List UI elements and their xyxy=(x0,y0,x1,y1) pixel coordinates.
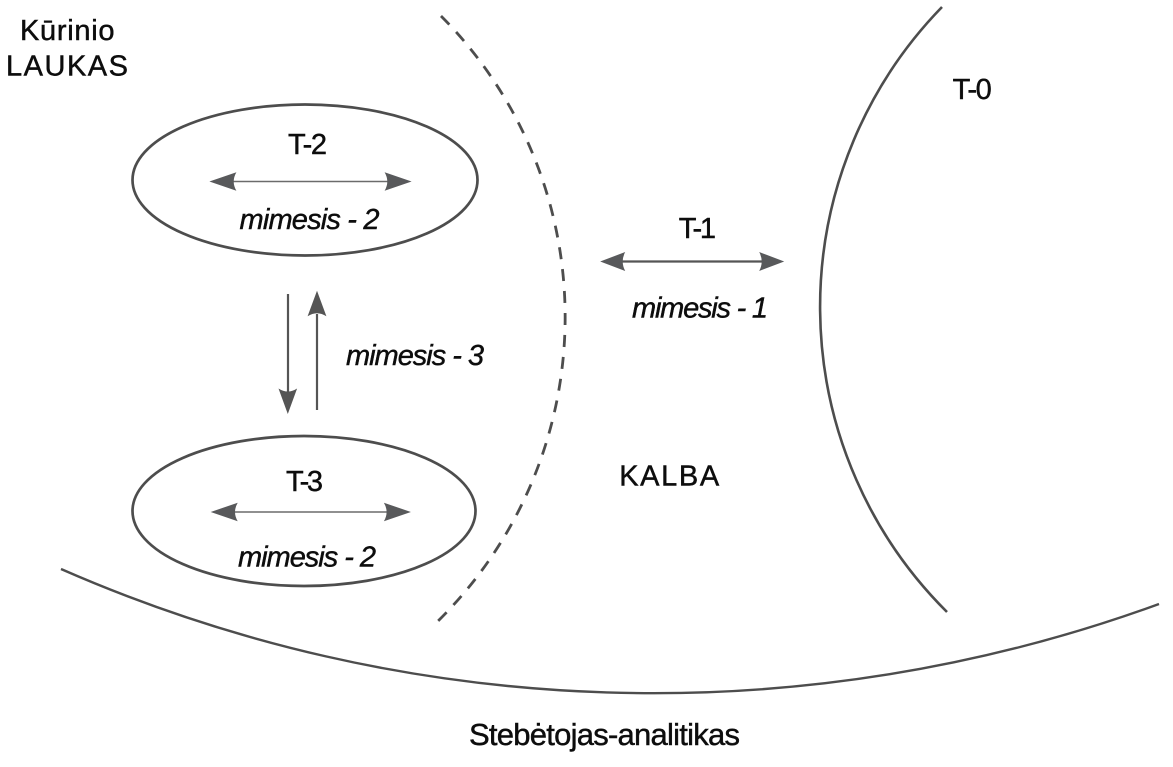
node Kurinio LAUKAS label xyxy=(6,15,128,83)
wire bottom arc observer boundary xyxy=(61,569,1159,693)
svg-text:KALBA: KALBA xyxy=(619,461,720,493)
wire dashed arc boundary xyxy=(437,16,565,622)
svg-text:mimesis - 1: mimesis - 1 xyxy=(632,293,768,325)
wire double arrow inside T-2 xyxy=(209,172,411,191)
svg-text:mimesis - 3: mimesis - 3 xyxy=(346,340,484,372)
wire double arrow T-1 xyxy=(600,252,784,271)
svg-text:Stebėtojas-analitikas: Stebėtojas-analitikas xyxy=(469,717,740,752)
svg-text:LAUKAS: LAUKAS xyxy=(6,51,128,83)
wire up arrow xyxy=(308,291,327,410)
wire down arrow xyxy=(279,294,298,414)
svg-text:mimesis - 2: mimesis - 2 xyxy=(240,204,380,236)
svg-text:mimesis - 2: mimesis - 2 xyxy=(238,542,376,574)
svg-text:T-1: T-1 xyxy=(679,213,716,245)
svg-text:Kūrinio: Kūrinio xyxy=(20,15,115,47)
svg-text:T-2: T-2 xyxy=(288,129,327,161)
ellipse T-3 xyxy=(133,436,476,586)
svg-text:T-3: T-3 xyxy=(286,466,323,498)
wire double arrow inside T-3 xyxy=(211,503,411,522)
svg-text:T-0: T-0 xyxy=(953,74,992,106)
ellipse T-2 xyxy=(133,105,478,256)
wire right arc T-0 boundary xyxy=(820,7,947,612)
